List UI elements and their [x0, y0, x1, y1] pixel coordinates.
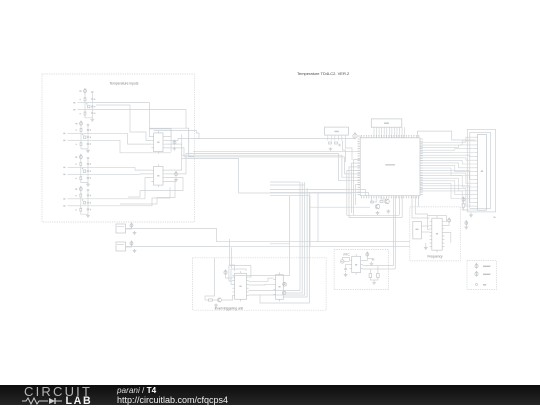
capacitor C9: [339, 144, 340, 147]
wire VR2 output rail: [126, 246, 410, 248]
wire MCU to frequency top 3: [417, 196, 419, 207]
wire transistor cluster feed: [309, 206, 370, 208]
wire ch3b to U2 pin2: [140, 173, 151, 175]
wire loop connector mid: [470, 132, 491, 208]
resistor R6a: [80, 177, 82, 180]
wire divider column 1: [84, 103, 86, 113]
wire input IN2 left: [78, 109, 86, 111]
ground Q2: [386, 210, 390, 214]
resistor R4a: [80, 143, 82, 146]
label IN4: [63, 140, 65, 141]
resistor R1m: [88, 105, 90, 108]
wire bus f2: [260, 268, 309, 303]
wire tap join U6: [229, 265, 234, 271]
power flag VB2: [465, 221, 468, 226]
wire input IN8 left: [68, 205, 81, 207]
wire V3 drop: [80, 159, 82, 164]
indicator LED D2: [282, 291, 285, 294]
resistor R5a: [80, 163, 82, 166]
wire U4 gnd stub: [425, 243, 427, 246]
wire ch2a to U1 pin2: [128, 133, 152, 144]
wire temp bus row0 to MCU pin: [193, 150, 360, 152]
wire stair row6: [351, 163, 360, 213]
label R2m: [82, 134, 83, 135]
label C3b: [90, 129, 91, 130]
wire U2 out4 staircase: [120, 181, 175, 204]
wire U6 loop 2: [231, 269, 246, 271]
label C1m: [94, 106, 95, 107]
node Temperature-inputs section box: [42, 74, 195, 222]
label R3a: [76, 130, 77, 131]
ground U1 flag: [173, 147, 177, 151]
label U5: [355, 264, 357, 266]
capacitor C8b: [87, 209, 89, 210]
wire bus vert 2: [181, 135, 183, 160]
wire U6 loop 2 left: [230, 269, 232, 285]
label U4: [436, 233, 438, 235]
wire input IN6 left: [68, 173, 81, 175]
resistor R1a: [84, 98, 86, 101]
resistor R3a: [80, 129, 82, 132]
wire V4 drop: [80, 191, 82, 195]
label C1b: [94, 99, 95, 100]
wire divider column 3: [80, 167, 82, 177]
wire ch1 aux: [96, 105, 151, 140]
wire Y2 to U5: [344, 260, 349, 262]
connector J2 (display header): [325, 127, 349, 135]
wire MCU right bus rows: [420, 143, 469, 191]
transistor Q2: [385, 199, 390, 204]
wire MCU-connector jog segments: [451, 137, 476, 210]
wire MCU to bus row b: [270, 193, 369, 196]
wire ch3a to U2 pin1: [135, 167, 151, 170]
driver IC U7: [273, 272, 285, 301]
label C4b: [90, 143, 91, 144]
wire U4 loop left: [427, 216, 429, 230]
wire U4 loop top: [428, 216, 447, 222]
wire U1 out3 exits box: [165, 144, 194, 155]
wire bus vert 1: [170, 129, 172, 152]
wire R12 bottom: [464, 207, 469, 210]
resistor R3m: [83, 170, 85, 173]
wire connector gnd stub: [470, 213, 472, 214]
wire MCU pin to Q1: [375, 196, 377, 203]
wire invert bus vertical 4: [304, 182, 306, 265]
wire input IN4 left: [68, 139, 82, 141]
wire Q3 to U6: [222, 296, 233, 301]
capacitor C5b: [87, 163, 89, 164]
resistor R17: [209, 299, 213, 301]
wire temp bus row4: [195, 156, 345, 158]
ground C10: [344, 273, 348, 277]
capacitor C11: [372, 259, 375, 260]
wire stair row5 rail: [349, 167, 402, 218]
power flag U4: [448, 218, 451, 223]
wire ch4b riser: [81, 187, 170, 206]
svg-text:Temperature TD4LC2. VER.2: Temperature TD4LC2. VER.2: [297, 71, 350, 76]
oscillator Y1: [413, 222, 422, 239]
ground J2: [329, 147, 333, 151]
wire VDD stub: [357, 136, 360, 138]
wire bend to ground column 4: [81, 211, 88, 214]
wire MCU bottom v3: [398, 196, 400, 216]
ground U2 flag: [174, 178, 178, 182]
wire MCU bottom v4: [401, 196, 403, 218]
ground VB2: [464, 226, 468, 230]
wire V2 drop: [80, 125, 82, 129]
wire C10 bottom: [345, 270, 347, 272]
resistor R10: [335, 142, 338, 144]
wire bend to ground column 1: [85, 115, 92, 118]
resistor R7a: [80, 194, 82, 197]
label U6: [239, 286, 241, 288]
wire invert bus vertical 3: [301, 182, 303, 264]
label C5b: [90, 163, 91, 164]
label IN3: [63, 133, 65, 134]
label C2m: [90, 137, 91, 138]
wire stair row2: [342, 155, 360, 177]
label R1a: [80, 99, 81, 100]
label J2: [334, 131, 338, 133]
wire VR2 to flag: [126, 245, 132, 247]
wire R3a to wire1: [80, 132, 82, 134]
wire R12 top: [463, 201, 465, 204]
capacitor C3m: [87, 171, 89, 172]
label V4: [75, 188, 77, 189]
wire input IN1 left: [78, 102, 86, 104]
label P1: [481, 170, 483, 172]
ground channel 2: [86, 149, 90, 153]
wire U2 out3 step2: [128, 191, 140, 198]
label IN5: [63, 167, 65, 168]
voltage source V4: [79, 186, 82, 191]
resistor R8a: [80, 208, 82, 211]
capacitor C7b: [87, 195, 89, 196]
wire MCU to frequency top 1: [411, 196, 413, 207]
ground U4: [424, 246, 428, 250]
voltage regulator VR1: [116, 224, 126, 233]
wire U2 out1 exits box: [165, 158, 196, 170]
label R4m: [82, 199, 83, 200]
indicator LED D1: [283, 282, 287, 286]
label C7b: [90, 195, 91, 196]
label C3m: [90, 171, 91, 172]
wire XTAL loop: [417, 131, 475, 140]
wire bus e2: [283, 267, 307, 298]
label IN8: [63, 205, 65, 206]
wire invert bus vertical 6: [308, 193, 310, 268]
label U1: [157, 142, 159, 144]
label U3: [385, 164, 395, 166]
wire invert bus vertical 2: [299, 182, 301, 262]
label Y1: [416, 229, 419, 230]
wire U6 to U7 b: [249, 283, 274, 286]
wire stub: [362, 195, 364, 197]
label connector: [494, 217, 496, 218]
wire filter column 3: [87, 157, 89, 182]
power flag VCC U2: [175, 171, 178, 176]
wire ch4a ext: [81, 198, 145, 200]
node RTC section box: [334, 250, 388, 290]
op-amp U2 (dual comparator): [151, 164, 165, 187]
ground R15 R16: [372, 281, 376, 285]
label R2a: [80, 113, 81, 114]
label VR2 line: [117, 244, 124, 246]
ground connector: [469, 214, 473, 218]
connector J1 (programming header): [371, 119, 402, 127]
wire loop connector outer: [467, 129, 495, 212]
capacitor C2b: [91, 113, 93, 114]
wire ch2b riser: [120, 140, 171, 153]
label V2: [75, 123, 77, 124]
wire stair row4 rail: [347, 170, 400, 215]
wire filter column 4: [87, 189, 89, 214]
power flag U6: [224, 270, 227, 275]
wire R16 top: [377, 266, 379, 274]
wire VR1 to flag: [126, 227, 132, 229]
wire C10 to U5: [346, 263, 350, 265]
resistor R2a: [84, 112, 86, 115]
ground channel 3: [86, 183, 90, 187]
label IN7: [63, 198, 65, 199]
wire MCU to bus row a: [270, 190, 366, 196]
wire ch3b ext: [81, 173, 140, 175]
wire U4 out right: [444, 233, 450, 243]
capacitor C4b: [87, 143, 89, 144]
wire R17 to Q3: [213, 299, 218, 301]
wire J2 data: [345, 141, 352, 160]
wire J2 data2: [342, 141, 345, 162]
footer bar: [0, 385, 540, 405]
wire ch1b bus: [85, 110, 189, 129]
wire bus to U6 pin: [232, 244, 289, 276]
wire Y1 to U4 b: [421, 231, 429, 233]
label R3m: [82, 168, 83, 169]
capacitor C4m: [87, 202, 89, 203]
wire freq feed internal 2: [415, 207, 427, 216]
wire stair row7: [354, 160, 361, 216]
voltage source V3: [79, 154, 82, 159]
power flag VB: [462, 197, 465, 202]
label VR1 line: [117, 226, 124, 228]
wire U6 vcc: [226, 275, 233, 278]
wire R1a to wire1: [84, 101, 86, 103]
label R1m: [86, 103, 87, 104]
ground VR2: [133, 249, 137, 253]
wire bus exit A: [189, 128, 195, 156]
wire temp bus to MCU row1: [193, 138, 355, 140]
wire vcc to C11: [367, 258, 373, 260]
wire rail riser 2: [309, 196, 311, 247]
logic IC U6: [232, 271, 248, 301]
wire VR1 output rail: [126, 229, 410, 242]
wire bus vert 3: [188, 128, 190, 156]
wire J1 pins to MCU: [374, 127, 405, 138]
wire bend to ground column 2: [81, 146, 88, 149]
resistor R12: [462, 204, 465, 207]
voltage source V2: [80, 121, 83, 126]
wire input IN5 left: [68, 166, 81, 168]
capacitor C2m: [87, 137, 89, 138]
node Invert-triggering section box: [193, 258, 327, 310]
wire MCU bottom v2 (I2C SCL): [394, 196, 396, 269]
wire temp bus row3: [195, 154, 342, 156]
wire bus to U6 out: [249, 262, 300, 291]
wire bus row e: [270, 184, 305, 186]
resistor R13: [380, 201, 383, 203]
legend voltage probe symbol: [475, 271, 478, 276]
wire invert bus vertical 5: [306, 188, 308, 267]
wire R7a to wire1: [80, 197, 82, 199]
label C8b: [90, 209, 91, 210]
wire MCU pin to R14: [370, 196, 373, 202]
wire C10 top: [345, 264, 347, 267]
ground channel 4: [86, 214, 90, 218]
label C6b: [90, 177, 91, 178]
svg-text:Temperature inputs: Temperature inputs: [109, 82, 138, 86]
resistor R15: [369, 274, 372, 278]
label U2: [157, 175, 159, 177]
CircuitLab logo: [24, 386, 94, 405]
wire U4 vcc: [444, 222, 449, 225]
wire bend to ground column 3: [81, 180, 88, 183]
wire bus top horizontal 2: [154, 131, 199, 139]
wire R15 R16 join: [370, 278, 378, 281]
transistor Q1: [375, 204, 380, 209]
wire divider column 2: [80, 133, 82, 143]
footer metadata text: [116, 384, 118, 386]
label C4m: [90, 202, 91, 203]
wire R5a to wire1: [80, 166, 82, 168]
op-amp U1 (dual comparator): [151, 131, 165, 154]
wire filter column 2: [87, 124, 89, 149]
wire U6 loop left: [229, 266, 233, 281]
ground VR1: [133, 231, 137, 235]
resistor R2m: [84, 136, 86, 139]
wire R17 in: [205, 299, 209, 301]
label U7: [278, 286, 280, 288]
svg-text:Frequency: Frequency: [427, 255, 442, 259]
label legend row1: [483, 266, 490, 267]
label C2b: [94, 113, 95, 114]
resistor R9: [329, 142, 332, 144]
wire invert left drop: [205, 258, 215, 300]
resistor R4m: [83, 201, 85, 204]
label R4a: [76, 144, 77, 145]
wire bus top horizontal: [149, 127, 188, 129]
wire rail riser 1: [317, 193, 319, 242]
wire gnd stub 2: [373, 279, 375, 282]
label V3: [75, 156, 77, 157]
label R8a: [75, 209, 76, 210]
wire V1 drop: [84, 93, 86, 99]
wire input IN7 left: [68, 198, 81, 200]
transistor Q3: [218, 298, 222, 302]
label R5a: [75, 164, 76, 165]
wire U1 out1 loop: [149, 129, 171, 137]
wire ch4a to U2 pin3: [145, 178, 151, 199]
ground Q3: [214, 304, 218, 308]
wire divider column 4: [80, 199, 82, 209]
wire R14 to Q1: [373, 201, 376, 203]
capacitor C1b: [91, 99, 93, 100]
wire MCU to frequency top 2: [414, 196, 416, 207]
wire bus bend low: [270, 243, 290, 245]
label V1: [79, 90, 81, 91]
wire freq feed internal 1: [412, 207, 430, 218]
label J1: [384, 122, 389, 124]
label IN2: [73, 109, 75, 110]
ground Q1: [376, 211, 380, 215]
capacitor C3b: [87, 129, 89, 130]
wire J2 pins: [328, 135, 346, 141]
wire U5 SCL to bus: [363, 268, 396, 270]
wire ch2a ext: [81, 132, 128, 134]
wire U2 out3 down: [140, 178, 183, 191]
wire stair row3: [345, 157, 361, 174]
wire Y1 to U4 a: [421, 225, 429, 227]
wire input IN3 left: [68, 132, 82, 134]
wire bus d2: [249, 265, 305, 295]
power flag VR1: [130, 223, 133, 228]
wire bus to U7: [283, 264, 302, 294]
power flag VR2: [130, 241, 133, 246]
wire tap VR1 to invert: [228, 239, 230, 265]
wire stair row8: [356, 184, 361, 205]
wire U1 out4 exits box: [165, 148, 194, 157]
ground C11: [370, 262, 374, 266]
node legend box: [467, 261, 496, 290]
connector P1: [476, 134, 487, 210]
voltage regulator VR2: [116, 242, 126, 251]
power flag VDD MCU: [353, 133, 357, 140]
label R6a: [75, 178, 76, 179]
wire ch3a ext: [81, 166, 135, 168]
RTC chip U5: [350, 254, 363, 275]
wire tap VR2 to invert: [231, 247, 233, 268]
label IN6: [63, 174, 65, 175]
voltage source V1: [84, 88, 87, 93]
node Frequency section box: [410, 207, 461, 261]
capacitor C3a: [87, 124, 89, 125]
wire U2 out2: [165, 154, 194, 174]
wire U6 tap: [231, 284, 232, 286]
wire MCU pin to Q2: [381, 196, 387, 200]
wire R15 top: [369, 269, 371, 274]
wire U6 loop top: [229, 266, 251, 277]
label legend row3: [483, 284, 486, 285]
microcontroller U3: [358, 136, 422, 198]
wire bus row c: [270, 195, 309, 197]
wire Y2 loop: [342, 258, 349, 261]
label IN1: [73, 102, 75, 103]
svg-text:Invert-triggering unit: Invert-triggering unit: [215, 306, 243, 310]
wire U1 out2 exits box: [165, 139, 199, 141]
wire U5 vcc: [363, 256, 368, 261]
counter U4: [430, 216, 445, 252]
wire MCU bottom v1 (I2C SDA): [393, 196, 395, 266]
power flag U5: [366, 252, 369, 257]
capacitor C6b: [87, 177, 89, 178]
svg-text:RTC: RTC: [344, 253, 351, 257]
wire bus row d: [270, 181, 300, 183]
capacitor C1m: [91, 106, 93, 107]
wire ch2b ext: [81, 139, 120, 141]
wire ch1a to U1 pin1: [85, 103, 151, 137]
wire filter column 1: [91, 91, 93, 117]
ground channel 1: [90, 118, 94, 122]
resistor R16: [377, 274, 380, 278]
